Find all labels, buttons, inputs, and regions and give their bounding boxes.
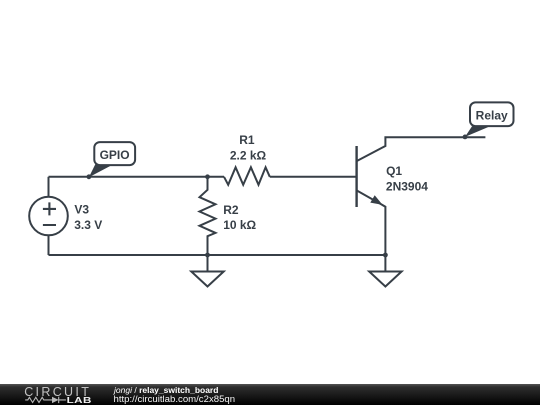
svg-text:Relay: Relay — [476, 108, 508, 122]
svg-text:R1: R1 — [239, 133, 255, 147]
svg-text:R2: R2 — [223, 203, 239, 217]
svg-text:3.3 V: 3.3 V — [74, 218, 102, 232]
svg-text:2.2 kΩ: 2.2 kΩ — [230, 148, 267, 162]
svg-text:LAB: LAB — [67, 396, 92, 405]
svg-text:10 kΩ: 10 kΩ — [223, 218, 256, 232]
svg-text:GPIO: GPIO — [100, 148, 130, 162]
svg-text:Q1: Q1 — [386, 164, 402, 178]
svg-text:2N3904: 2N3904 — [386, 179, 428, 193]
svg-text:V3: V3 — [74, 203, 89, 217]
